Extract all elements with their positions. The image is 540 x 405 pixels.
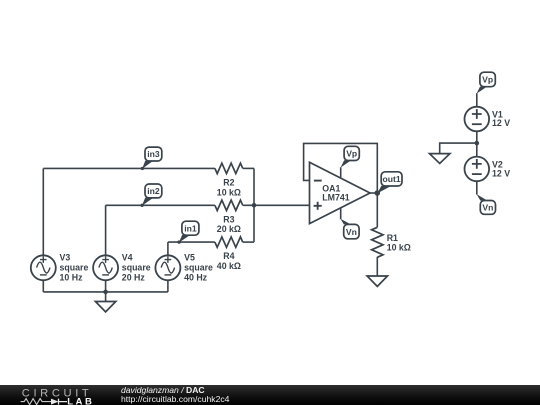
footer bar <box>0 385 540 405</box>
wire V1 bottom to junction <box>476 131 478 143</box>
op-amp OA1 <box>310 162 371 223</box>
svg-text:Vn: Vn <box>346 227 357 237</box>
svg-text:10 kΩ: 10 kΩ <box>217 187 241 197</box>
svg-text:R4: R4 <box>223 251 234 261</box>
svg-text:in1: in1 <box>184 223 197 233</box>
svg-text:V4: V4 <box>122 252 133 262</box>
svg-text:in2: in2 <box>147 186 160 196</box>
voltage source V4 <box>93 255 118 280</box>
ground (under R1) <box>367 276 387 286</box>
node out1 <box>377 172 402 194</box>
svg-text:10 Hz: 10 Hz <box>60 272 84 282</box>
wire R1 top lead <box>376 193 378 227</box>
svg-text:Vp: Vp <box>346 149 357 159</box>
resistor R3 <box>215 200 243 210</box>
voltage source V3 <box>31 255 56 280</box>
svg-text:square: square <box>60 262 89 272</box>
wire junction to right ground <box>440 143 477 154</box>
ground (right, V1/V2 midpoint) <box>430 154 450 164</box>
wire R2 right lead to bus <box>243 167 254 169</box>
wire right bus vertical <box>253 168 255 242</box>
wire Vp to V1 <box>476 93 478 107</box>
wire V2 bottom to Vn <box>476 181 478 194</box>
node Vn (right supply) <box>477 194 496 214</box>
svg-text:out1: out1 <box>383 174 401 184</box>
svg-text:square: square <box>184 262 213 272</box>
wire feedback loop <box>304 143 378 193</box>
svg-text:12 V: 12 V <box>492 118 510 128</box>
wire R4 right lead to bus <box>243 241 254 243</box>
svg-text:40 kΩ: 40 kΩ <box>217 261 241 271</box>
value label OA1 LM741 <box>322 184 349 203</box>
junction bottom rail <box>103 290 108 295</box>
resistor R2 <box>215 163 243 173</box>
CircuitLab logo <box>0 385 110 405</box>
node in1 <box>177 221 198 244</box>
voltage source V5 <box>155 255 180 280</box>
wire V5 bottom stub <box>167 280 169 292</box>
svg-text:20 kΩ: 20 kΩ <box>217 224 241 234</box>
wire junction to V2 top <box>476 143 478 157</box>
svg-text:R3: R3 <box>223 214 234 224</box>
svg-text:square: square <box>122 262 151 272</box>
ground (left, under V4) <box>95 302 115 312</box>
svg-text:10 kΩ: 10 kΩ <box>387 243 411 253</box>
svg-text:40 Hz: 40 Hz <box>184 272 208 282</box>
value label R4 <box>217 251 241 271</box>
value label R3 <box>217 214 241 234</box>
value label V5 <box>184 252 213 282</box>
value label R2 <box>217 178 241 198</box>
footer title text <box>121 385 205 395</box>
footer url text <box>121 394 229 404</box>
wire V3 bottom stub <box>42 280 44 292</box>
wire V4 top stub <box>105 205 107 255</box>
node Vp (right supply) <box>477 72 496 93</box>
svg-text:V5: V5 <box>184 252 195 262</box>
wire in2 row <box>106 204 215 206</box>
svg-text:in3: in3 <box>147 149 160 159</box>
node in2 <box>140 184 161 207</box>
svg-text:LM741: LM741 <box>322 192 349 202</box>
value label V1 <box>492 109 510 128</box>
wire in3 row <box>43 167 215 169</box>
wire ground stub left <box>105 292 107 302</box>
wire bottom rail <box>43 291 168 293</box>
svg-text:R2: R2 <box>223 178 234 188</box>
svg-text:Vp: Vp <box>482 75 493 85</box>
wire V3 top stub <box>42 168 44 255</box>
node Vn (op-amp supply) <box>341 219 360 239</box>
wire op-amp output stub <box>370 192 377 194</box>
svg-text:R1: R1 <box>387 233 398 243</box>
value label V4 <box>122 252 151 282</box>
voltage source V2 <box>465 157 490 182</box>
svg-text:12 V: 12 V <box>492 168 510 178</box>
wire R3 right lead to op-amp + input <box>243 204 310 206</box>
voltage source V1 <box>465 107 490 132</box>
junction on bus (in2 row) <box>252 203 257 208</box>
node Vp (op-amp supply) <box>341 146 360 167</box>
value label R1 <box>387 233 411 253</box>
resistor R4 <box>215 237 243 247</box>
junction op-amp output <box>375 190 381 196</box>
node in3 <box>141 147 162 170</box>
wire V4 bottom stub <box>105 280 107 292</box>
junction V1-V2 midpoint <box>475 141 480 146</box>
wire in1 row <box>168 241 215 243</box>
svg-text:Vn: Vn <box>482 203 493 213</box>
svg-text:LAB: LAB <box>67 396 94 405</box>
svg-text:V3: V3 <box>60 252 71 262</box>
resistor R1 <box>372 227 383 257</box>
value label V2 <box>492 160 510 179</box>
value label V3 <box>60 252 89 282</box>
wire V5 top stub <box>167 242 169 255</box>
svg-text:20 Hz: 20 Hz <box>122 272 146 282</box>
wire R1 bottom lead <box>376 257 378 276</box>
